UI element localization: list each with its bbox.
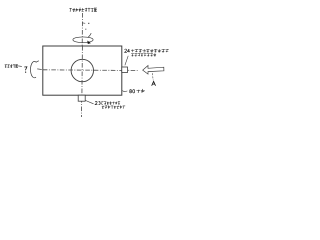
rotation arrow about tangential (vertical) axis [73, 37, 93, 43]
label 80: number [130, 89, 135, 92]
letter A [152, 81, 156, 85]
label: radial axis (katakana) [5, 64, 18, 68]
label 23: number [95, 101, 100, 104]
label: tangential axis (katakana) [69, 8, 97, 12]
label 24: tangential tilt (katakana line 1) [131, 49, 169, 52]
radial tilt actuator 23 (small box on bottom edge) [78, 95, 85, 101]
small tick on centerline [82, 22, 85, 25]
label 23: radial tilt (katakana line 1) [101, 101, 120, 104]
view direction arrow A (outline arrow pointing left) [143, 66, 164, 75]
rotation arrow about radial (horizontal) axis [31, 61, 39, 78]
dashed line from arrow to letter A [151, 73, 154, 80]
leader line to label 80 [122, 90, 127, 93]
vertical centerline (tangential axis) [82, 13, 83, 117]
leader line to label 23 [85, 100, 93, 103]
horizontal centerline segment between rotation symbol and box [37, 69, 138, 71]
horizontal centerline (radial axis), left outside segment [18, 65, 22, 68]
label 23: actuator (katakana line 2) [102, 105, 125, 108]
centerline inside body (vertical) [81, 46, 84, 95]
label 24: number [125, 49, 130, 52]
label 24: actuator (katakana line 2) [131, 53, 156, 56]
lens aperture circle [71, 59, 93, 81]
speck dot [88, 23, 89, 24]
centerline inside body (horizontal) [43, 69, 122, 72]
speck dot [85, 29, 86, 30]
carriage body 80 (main rectangle) [43, 46, 122, 95]
tangential tilt actuator 24 (small box on right edge) [122, 67, 128, 73]
label 80: carriage (kanji) [137, 89, 145, 93]
leader line to label 24 [125, 56, 128, 66]
